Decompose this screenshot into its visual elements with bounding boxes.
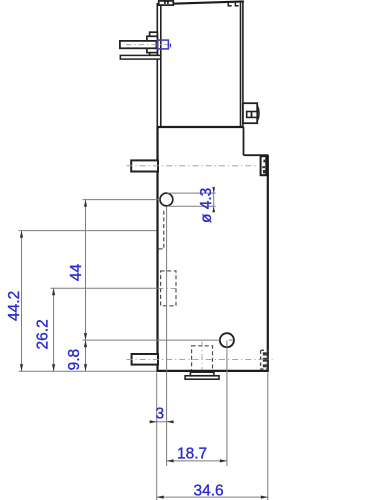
coil top-right hook marks xyxy=(228,2,238,6)
extension line y=230.7 (44.2 top) xyxy=(19,230,157,232)
dimension line 18.7 xyxy=(167,460,227,462)
coil top edge xyxy=(157,1,244,4)
svg-text:3: 3 xyxy=(155,406,164,423)
lower body right edge xyxy=(267,155,269,371)
arrow dia top xyxy=(212,187,215,193)
dimension line 34.6 xyxy=(157,496,268,498)
extension line bottom left x=156.7 xyxy=(156,373,158,500)
middle pin xyxy=(131,160,158,171)
svg-text:26.2: 26.2 xyxy=(34,319,51,349)
lower body right shelf xyxy=(244,154,269,156)
lower body right edge upper xyxy=(243,127,245,155)
hole circle 2 xyxy=(220,333,234,347)
arrow 34.6 left xyxy=(157,496,164,499)
dimension line 44 / 9.8 xyxy=(85,200,87,372)
hidden dashed line inside upper body xyxy=(159,211,165,249)
arrow 9.8 top xyxy=(84,340,87,347)
arrow 18.7 left xyxy=(167,459,174,462)
centerline of bottom pin xyxy=(127,358,273,360)
arrow 44 top xyxy=(84,200,87,207)
latch connector on right of coil xyxy=(243,103,259,123)
svg-text:34.6: 34.6 xyxy=(194,483,224,500)
svg-text:9.8: 9.8 xyxy=(66,349,83,371)
arrow 44 bottom xyxy=(84,333,87,340)
diameter 4.3 dimension line xyxy=(213,187,215,212)
arrow 18.7 right xyxy=(220,459,227,462)
lower body left edge xyxy=(156,127,158,372)
arrow 44.2 top xyxy=(20,231,23,238)
coil top-left tab xyxy=(159,1,174,5)
extension line y=340.1 (44 bottom / 9.8 top, to circle 2) xyxy=(83,339,221,341)
svg-text:44: 44 xyxy=(68,264,85,282)
centerline of middle pin xyxy=(127,165,259,167)
extension line y=199.6 (44 top, to circle 1 center) xyxy=(83,199,161,201)
blue highlight box on pin 1 xyxy=(157,40,168,49)
arrow 34.6 right xyxy=(261,496,268,499)
bottom center hidden dashed rectangle xyxy=(192,346,213,372)
extension line bottom right x=267.8 xyxy=(267,373,269,500)
terminal pin 1 xyxy=(120,41,156,48)
extension line from circle 2 center down xyxy=(226,341,228,467)
centerline of pin 1 xyxy=(126,44,173,46)
right screw boss upper (solid) xyxy=(261,156,268,176)
hidden dashed rectangle (middle) xyxy=(161,271,176,306)
coil body left wall xyxy=(157,3,161,127)
upper terminal collar outer step xyxy=(150,32,158,55)
lower body bottom edge xyxy=(157,370,269,372)
bottom pin xyxy=(132,354,158,365)
svg-text:ø 4.3: ø 4.3 xyxy=(198,188,215,223)
arrow 26.2 bottom xyxy=(52,364,55,371)
arrow 9.8 bottom xyxy=(84,364,87,371)
arrow dia bottom xyxy=(212,206,215,212)
vertical centerline of bottom rectangle xyxy=(201,342,203,376)
arrowheads xyxy=(20,187,268,499)
extension line y=371.2 (bottom reference) xyxy=(19,370,157,372)
upper terminal collar xyxy=(147,36,158,52)
coil bottom edge / lower body shoulder xyxy=(157,126,244,128)
centerline of middle dashed rectangle xyxy=(158,287,177,289)
svg-text:18.7: 18.7 xyxy=(177,446,207,463)
svg-text:44.2: 44.2 xyxy=(6,291,23,321)
arrow 26.2 top xyxy=(52,288,55,295)
dimension line 3 xyxy=(150,421,174,423)
arrow dim3 right xyxy=(167,420,174,423)
terminal pin 2 xyxy=(120,55,160,59)
extension line y=288.3 (26.2 top) xyxy=(51,287,158,289)
coil body right wall xyxy=(241,1,243,127)
arrow dim3 left xyxy=(150,420,157,423)
diameter 4.3 tangent extension top xyxy=(167,192,216,194)
diameter 4.3 tangent extension bottom xyxy=(167,205,216,207)
mounting foot under body xyxy=(185,372,219,379)
tiny blue mark xyxy=(170,44,172,48)
arrow 44.2 bottom xyxy=(20,364,23,371)
right screw boss lower (hidden dashed) xyxy=(261,350,268,369)
hole circle 1 xyxy=(160,193,173,206)
dimension line 26.2 xyxy=(53,288,55,371)
dimension line 44.2 xyxy=(21,231,23,372)
extension line from circle 1 center down xyxy=(166,207,168,467)
